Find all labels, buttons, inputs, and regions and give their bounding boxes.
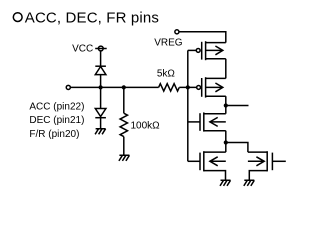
ground (Q4) (220, 180, 231, 186)
wire node E to Q5 (226, 143, 248, 153)
transistor Q1 (PMOS) (188, 41, 226, 60)
node A junction dot (99, 85, 103, 89)
diode D2 (95, 87, 106, 128)
wire Q1 drain to Q2 source (225, 59, 227, 79)
wire VREG rail to Q1 source (179, 32, 226, 43)
wire 5k to Q2 gate (179, 86, 196, 88)
wire D1 to node A (100, 75, 102, 88)
resistor 100k (120, 87, 127, 155)
svg-text:ACC (pin22): ACC (pin22) (29, 102, 84, 113)
svg-text:F/R (pin20): F/R (pin20) (29, 129, 79, 140)
ground (D2) (95, 129, 106, 135)
svg-text:DEC (pin21): DEC (pin21) (29, 115, 84, 126)
svg-text:VCC: VCC (72, 44, 93, 55)
svg-text:ACC, DEC, FR pins: ACC, DEC, FR pins (25, 10, 159, 27)
wire VCC to D1 (100, 51, 102, 66)
VCC terminal (95, 46, 107, 51)
VREG terminal (175, 30, 179, 34)
transistor Q3 (NMOS) (188, 112, 226, 131)
wire output tap (226, 105, 249, 107)
wire input to 5k resistor (71, 86, 159, 88)
gate bus wire (187, 50, 189, 161)
node E junction dot (224, 140, 228, 144)
transistor Q5 (NMOS mirrored) (248, 151, 286, 180)
node C junction dot (gate bus) (186, 85, 190, 89)
diode D1 (95, 66, 106, 74)
transistor Q2 (PMOS) (197, 77, 226, 97)
wire Q2 drain to output node (225, 96, 227, 114)
title: ACC, DEC, FR pins (13, 10, 159, 27)
svg-text:5kΩ: 5kΩ (157, 68, 176, 79)
node D output junction dot (224, 103, 228, 107)
input terminal (66, 85, 70, 89)
wire Q3 drain to node E (225, 131, 227, 152)
node B junction dot (122, 85, 126, 89)
svg-text:VREG: VREG (154, 37, 183, 48)
resistor 5k (159, 84, 180, 91)
ground (Q5) (244, 180, 255, 186)
ground (100k) (119, 155, 129, 161)
transistor Q4 (NMOS) (188, 151, 226, 180)
svg-text:100kΩ: 100kΩ (131, 120, 161, 131)
